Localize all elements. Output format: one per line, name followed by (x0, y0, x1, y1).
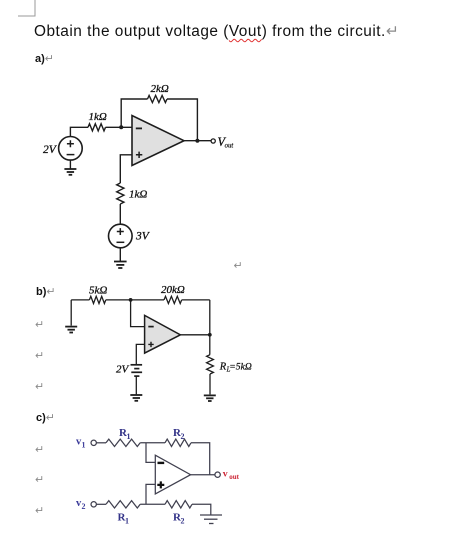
svg-text:2V: 2V (116, 364, 130, 376)
svg-text:2: 2 (82, 502, 86, 511)
wire output (180, 334, 209, 336)
label b) (36, 285, 56, 298)
wire R1 to node A (140, 442, 165, 444)
wire output to terminal (191, 474, 215, 476)
wire source to ground (119, 248, 121, 261)
paragraph mark after circuit a (234, 259, 243, 272)
wire node to inverting input (131, 300, 145, 327)
wire feedback down (209, 300, 211, 335)
wire to RL (209, 335, 211, 355)
svg-text:2V: 2V (43, 144, 58, 156)
node inverting (129, 298, 133, 302)
source V2 3V (109, 224, 133, 248)
terminal v2 (91, 502, 96, 507)
resistor R1 bottom (106, 501, 140, 508)
label 5k (89, 285, 107, 297)
ground left (65, 327, 77, 333)
terminal Vout (211, 139, 215, 143)
wire noninverting to battery (136, 344, 144, 364)
terminal v1 (91, 440, 96, 445)
label Vout (218, 135, 235, 150)
label R2 top (173, 427, 185, 441)
resistor 1k noninverting (117, 183, 124, 204)
svg-text:1kΩ: 1kΩ (89, 111, 107, 123)
terminal vout (215, 472, 220, 477)
label 1k input (89, 111, 107, 123)
paragraph marks left margin (b section) (35, 318, 44, 331)
source V1 2V (59, 137, 83, 161)
wire v1 to R1 (96, 442, 106, 444)
wire noninverting (146, 484, 155, 504)
svg-text:out: out (229, 473, 239, 481)
svg-text:2: 2 (181, 516, 185, 525)
title text (34, 22, 399, 41)
wire feedback up (121, 99, 147, 127)
node output RL (208, 333, 212, 337)
wire noninverting left down (120, 155, 132, 183)
op-amp U1 (132, 116, 184, 166)
resistor RL (207, 355, 214, 374)
label vout (223, 469, 240, 481)
label a) (35, 52, 54, 65)
wire source 2V to ground (69, 160, 71, 168)
label RL=5k (219, 361, 252, 373)
ground under 3V (114, 262, 127, 269)
wire left to ground (70, 300, 72, 326)
svg-text:=5kΩ: =5kΩ (229, 361, 252, 372)
op-amp U2 (145, 315, 181, 353)
ground under 2V (64, 169, 76, 175)
resistor R2 feedback (165, 439, 191, 446)
resistor 5k (89, 296, 105, 303)
label R1 top (119, 427, 131, 441)
ground battery (130, 395, 142, 401)
label R1 bottom (118, 512, 130, 526)
wire source to resistor (70, 127, 88, 136)
wire node B (140, 503, 165, 505)
op-amp U3 (155, 455, 190, 494)
resistor R2 bottom (165, 501, 192, 508)
label 20k (161, 284, 185, 296)
svg-text:1: 1 (127, 432, 131, 441)
ground RL (204, 395, 216, 401)
svg-text:1: 1 (125, 516, 129, 525)
battery 2V (131, 365, 143, 376)
svg-text:2: 2 (181, 432, 185, 441)
wire resistor to source V2 (119, 204, 121, 224)
svg-text:1kΩ: 1kΩ (129, 189, 147, 201)
svg-text:5kΩ: 5kΩ (89, 285, 107, 297)
svg-text:R: R (219, 361, 227, 372)
paragraph marks left margin (c section) (35, 443, 44, 456)
wire top rail (71, 299, 210, 301)
label R2 bottom (173, 512, 185, 526)
svg-text:1: 1 (82, 441, 86, 450)
label 3V (135, 231, 151, 243)
wire feedback right down (167, 99, 197, 141)
label v1 (76, 437, 86, 450)
resistor R1 top (106, 439, 140, 446)
wire battery to ground (135, 376, 137, 394)
wire output (184, 140, 211, 142)
wire R2 to output (191, 443, 210, 475)
svg-text:v: v (223, 469, 228, 480)
svg-text:2kΩ: 2kΩ (151, 83, 169, 95)
resistor 2k feedback (148, 95, 168, 102)
page crop mark top-left (0, 0, 50, 25)
label 1k noninverting (129, 189, 147, 201)
svg-text:20kΩ: 20kΩ (161, 284, 185, 296)
wire R2 bottom to ground (192, 504, 211, 515)
label 2V battery (116, 364, 130, 376)
node A drop to inverting (146, 443, 155, 463)
label 2V (43, 144, 58, 156)
node output (195, 139, 199, 143)
wire resistor to opamp inverting (106, 126, 133, 128)
ground c (200, 515, 222, 524)
label c) (36, 411, 55, 424)
svg-text:3V: 3V (135, 231, 151, 243)
wire RL to ground (209, 374, 211, 394)
wire v2 to R1 bottom (96, 503, 106, 505)
label 2k feedback (151, 83, 169, 95)
node inverting input (119, 125, 123, 129)
resistor 20k (164, 296, 182, 303)
resistor 1k input (88, 124, 106, 131)
label v2 (76, 498, 86, 511)
svg-text:out: out (225, 143, 235, 150)
